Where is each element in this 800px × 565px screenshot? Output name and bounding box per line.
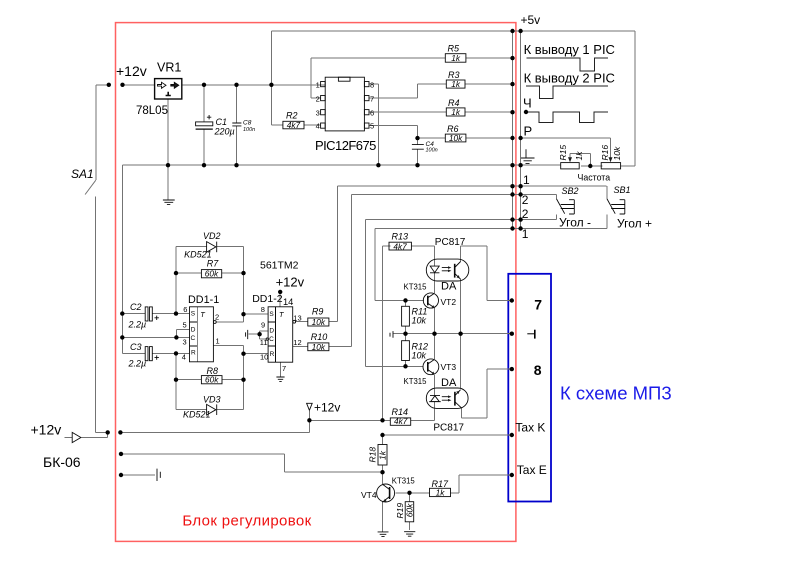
svg-text:7: 7 bbox=[282, 364, 286, 373]
svg-text:10k: 10k bbox=[312, 342, 326, 352]
svg-text:1k: 1k bbox=[377, 450, 387, 460]
svg-text:+12v: +12v bbox=[276, 275, 305, 290]
svg-text:5: 5 bbox=[183, 321, 187, 330]
svg-text:6: 6 bbox=[370, 108, 374, 117]
svg-text:Блок регулировок: Блок регулировок bbox=[182, 513, 311, 530]
svg-text:10k: 10k bbox=[412, 350, 427, 360]
svg-text:C8: C8 bbox=[243, 119, 252, 126]
svg-text:2: 2 bbox=[316, 94, 320, 103]
svg-text:+12v: +12v bbox=[116, 63, 147, 79]
svg-text:R2: R2 bbox=[286, 111, 298, 121]
svg-text:PC817: PC817 bbox=[435, 237, 466, 248]
svg-text:SA1: SA1 bbox=[71, 167, 94, 181]
svg-text:PC817: PC817 bbox=[433, 422, 464, 433]
svg-text:60k: 60k bbox=[404, 503, 414, 517]
svg-text:2.2µ: 2.2µ bbox=[128, 320, 147, 330]
svg-text:1: 1 bbox=[216, 337, 220, 346]
svg-text:10k: 10k bbox=[449, 133, 463, 143]
svg-text:1k: 1k bbox=[451, 79, 461, 89]
svg-text:DA: DA bbox=[441, 377, 457, 389]
svg-text:+12v: +12v bbox=[314, 401, 340, 415]
svg-text:2.2µ: 2.2µ bbox=[128, 359, 147, 369]
svg-text:78L05: 78L05 bbox=[136, 105, 168, 117]
svg-text:4: 4 bbox=[316, 122, 320, 131]
svg-text:KT315: KT315 bbox=[404, 377, 428, 386]
svg-text:S: S bbox=[269, 311, 274, 318]
svg-text:R16: R16 bbox=[600, 145, 610, 161]
svg-text:C: C bbox=[191, 335, 196, 342]
svg-text:VD2: VD2 bbox=[203, 231, 221, 241]
svg-text:Tax K: Tax K bbox=[515, 420, 545, 434]
svg-text:10k: 10k bbox=[312, 317, 326, 327]
svg-text:К выводу 2 PIC: К выводу 2 PIC bbox=[524, 70, 615, 85]
svg-text:Частота: Частота bbox=[578, 172, 611, 182]
svg-text:100n: 100n bbox=[426, 148, 438, 154]
svg-text:5: 5 bbox=[370, 122, 374, 131]
svg-text:4k7: 4k7 bbox=[394, 416, 408, 426]
svg-text:7: 7 bbox=[370, 94, 374, 103]
svg-text:10k: 10k bbox=[412, 315, 427, 325]
svg-text:Tax E: Tax E bbox=[517, 463, 547, 477]
svg-text:1k: 1k bbox=[574, 151, 584, 161]
svg-text:Угол +: Угол + bbox=[617, 217, 652, 231]
svg-text:R7: R7 bbox=[207, 259, 219, 269]
svg-text:C2: C2 bbox=[130, 302, 142, 312]
svg-text:7: 7 bbox=[534, 296, 542, 312]
svg-text:C: C bbox=[269, 336, 274, 343]
svg-text:C3: C3 bbox=[130, 342, 142, 352]
svg-text:К схеме МП3: К схеме МП3 bbox=[560, 383, 672, 404]
svg-text:10: 10 bbox=[260, 353, 268, 362]
svg-text:VD3: VD3 bbox=[203, 394, 221, 404]
svg-text:9: 9 bbox=[261, 320, 265, 329]
svg-text:R: R bbox=[191, 350, 196, 357]
svg-text:1: 1 bbox=[316, 80, 320, 89]
svg-text:2: 2 bbox=[522, 207, 529, 221]
svg-text:R: R bbox=[270, 351, 275, 358]
svg-text:VR1: VR1 bbox=[157, 61, 181, 75]
svg-text:100n: 100n bbox=[243, 127, 255, 133]
svg-text:R19: R19 bbox=[395, 503, 405, 519]
svg-text:DD1-2: DD1-2 bbox=[252, 293, 283, 305]
svg-text:3: 3 bbox=[183, 337, 187, 346]
svg-text:R10: R10 bbox=[311, 332, 328, 342]
svg-text:12: 12 bbox=[293, 338, 301, 347]
svg-text:KT315: KT315 bbox=[392, 476, 416, 485]
svg-text:KT315: KT315 bbox=[404, 283, 428, 292]
svg-text:К выводу 1 PIC: К выводу 1 PIC bbox=[524, 42, 615, 57]
svg-text:4k7: 4k7 bbox=[393, 241, 407, 251]
svg-text:13: 13 bbox=[293, 314, 301, 323]
svg-text:1k: 1k bbox=[451, 107, 461, 117]
svg-text:4k7: 4k7 bbox=[287, 120, 301, 130]
svg-text:10k: 10k bbox=[612, 146, 622, 160]
svg-text:11: 11 bbox=[260, 338, 268, 347]
svg-text:D: D bbox=[191, 326, 196, 333]
svg-text:3: 3 bbox=[316, 108, 320, 117]
svg-text:220µ: 220µ bbox=[214, 127, 235, 137]
svg-text:D: D bbox=[269, 327, 274, 334]
svg-text:4: 4 bbox=[182, 352, 186, 361]
svg-text:+12v: +12v bbox=[31, 422, 62, 438]
svg-text:R15: R15 bbox=[558, 145, 568, 161]
svg-text:14: 14 bbox=[283, 297, 293, 307]
svg-text:8: 8 bbox=[370, 80, 374, 89]
svg-text:2: 2 bbox=[522, 193, 529, 207]
svg-text:8: 8 bbox=[534, 362, 542, 378]
svg-text:1: 1 bbox=[522, 227, 529, 241]
svg-text:БК-06: БК-06 bbox=[43, 454, 81, 470]
svg-text:C1: C1 bbox=[216, 117, 228, 127]
svg-text:VT2: VT2 bbox=[441, 297, 457, 307]
svg-text:+5v: +5v bbox=[521, 13, 541, 27]
svg-text:8: 8 bbox=[261, 305, 265, 314]
svg-text:SB1: SB1 bbox=[614, 185, 631, 195]
svg-text:2: 2 bbox=[215, 313, 219, 322]
svg-text:1k: 1k bbox=[436, 488, 446, 498]
svg-text:Р: Р bbox=[524, 124, 533, 139]
svg-text:R18: R18 bbox=[367, 447, 377, 463]
svg-text:1k: 1k bbox=[451, 53, 461, 63]
svg-text:R9: R9 bbox=[312, 307, 324, 317]
svg-text:DD1-1: DD1-1 bbox=[188, 294, 219, 306]
svg-text:SB2: SB2 bbox=[562, 186, 579, 196]
svg-text:KD521: KD521 bbox=[183, 409, 211, 419]
svg-text:60k: 60k bbox=[205, 269, 219, 279]
svg-text:S: S bbox=[191, 311, 196, 318]
svg-text:561ТМ2: 561ТМ2 bbox=[260, 260, 299, 272]
svg-text:Ч: Ч bbox=[523, 96, 532, 111]
svg-text:PIC12F675: PIC12F675 bbox=[315, 138, 376, 153]
svg-text:60k: 60k bbox=[205, 375, 219, 385]
svg-text:R13: R13 bbox=[392, 232, 409, 242]
svg-text:VT4: VT4 bbox=[361, 490, 377, 500]
svg-text:VT3: VT3 bbox=[441, 362, 457, 372]
svg-text:DA: DA bbox=[441, 281, 457, 293]
svg-text:Угол -: Угол - bbox=[559, 216, 591, 230]
svg-text:R5: R5 bbox=[448, 44, 460, 54]
svg-text:1: 1 bbox=[523, 173, 530, 187]
svg-text:6: 6 bbox=[183, 305, 187, 314]
